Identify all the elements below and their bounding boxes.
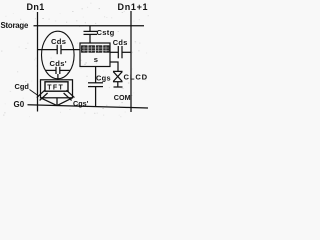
pixel electrode box [80,43,110,67]
svg-text:Cstg: Cstg [97,28,115,37]
capacitor Cgs' (diagonal plates at TFT lower-right) [66,90,74,97]
wire Cgs to gate line [95,87,97,107]
svg-text:Cds': Cds' [50,59,67,68]
wire data line Dn1+1 vertical [130,11,132,112]
svg-text:Cgs: Cgs [96,74,111,83]
svg-text:Cds: Cds [113,38,128,47]
pixel electrode text (CJK pseudo-glyphs) [81,45,110,53]
wire TFT to gate line (crow's foot) [41,98,58,106]
wire Cds to pixel box [61,49,80,51]
svg-text:COM: COM [114,93,131,102]
wire pixel box to CLCD [110,62,118,71]
TFT outer box [41,80,73,98]
svg-text:Cds: Cds [51,37,66,46]
ellipse around Cds and Cds' [42,31,75,79]
wire gate line G0 [28,105,149,108]
svg-text:G0: G0 [14,100,25,109]
capacitor Cstg [89,26,91,32]
wire Cds' to TFT [57,74,59,80]
svg-text:TFT: TFT [47,85,64,92]
wire CLCD to COM terminal [117,82,119,87]
svg-text:s: s [94,55,98,64]
wire data line Dn1 vertical [37,12,39,112]
wire Dn1 to Cds [38,49,58,51]
svg-text:Dn1+1: Dn1+1 [118,2,149,12]
capacitor Cgd (diagonal plates at TFT lower-left) [37,90,45,97]
capacitor Cds (left, in ellipse) [56,45,58,54]
wire storage line horizontal [34,25,145,27]
svg-text:Dn1: Dn1 [27,2,45,12]
svg-text:Cgd: Cgd [15,82,30,91]
svg-text:Storage: Storage [1,21,29,30]
capacitor CLCD (LC symbol) [113,70,123,72]
wire pixel box to Cgs [95,67,97,83]
transistor TFT inner box [45,82,68,91]
svg-text:CLCD: CLCD [124,73,149,82]
